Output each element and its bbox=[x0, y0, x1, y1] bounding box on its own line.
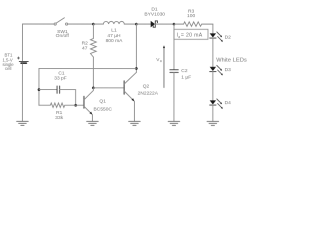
svg-text:BYV1030: BYV1030 bbox=[144, 11, 165, 17]
svg-text:D1: D1 bbox=[151, 6, 158, 12]
svg-text:C2: C2 bbox=[181, 68, 188, 74]
wire D1 cathode to node C bbox=[155, 23, 174, 25]
node B junction dot bbox=[135, 23, 138, 26]
transistor Q1 bbox=[84, 88, 93, 121]
node C junction dot bbox=[173, 23, 176, 26]
svg-text:33 pF: 33 pF bbox=[54, 76, 67, 82]
node Vx feedback junction dot bbox=[135, 67, 138, 70]
voltage arrow Va bbox=[163, 45, 165, 87]
ground battery bbox=[17, 121, 29, 125]
wire to C1 left plate bbox=[39, 89, 57, 91]
svg-text:On/off: On/off bbox=[56, 33, 70, 39]
wire R2 bottom to node X bbox=[92, 57, 94, 88]
wire switch to node A bbox=[68, 23, 94, 25]
resistor R2 (vertical) bbox=[90, 24, 96, 57]
wire D3 to D4 bbox=[212, 72, 214, 101]
svg-text:47 µH: 47 µH bbox=[107, 33, 121, 39]
svg-text:D3: D3 bbox=[225, 67, 232, 73]
ground Q2 emitter bbox=[129, 121, 141, 125]
wire R3 to LED chain (top-right corner) bbox=[212, 24, 214, 33]
inductor L1 bbox=[93, 21, 136, 24]
svg-text:1 µF: 1 µF bbox=[181, 74, 191, 80]
wire node X to Q2 base bbox=[93, 87, 124, 89]
svg-text:100: 100 bbox=[187, 13, 195, 19]
svg-text:D2: D2 bbox=[225, 35, 232, 41]
svg-text:L1: L1 bbox=[111, 28, 117, 34]
ground C2 bbox=[168, 121, 180, 125]
svg-text:White LEDs: White LEDs bbox=[216, 58, 247, 64]
junction dot C1/R1/Q1 base bbox=[74, 104, 77, 107]
svg-text:= 20 mA: = 20 mA bbox=[181, 33, 203, 39]
wire battery positive to switch (top-left corner) bbox=[22, 24, 53, 61]
node X junction dot (R2 / Q1 collector / Q2 base) bbox=[92, 87, 95, 90]
svg-text:cell: cell bbox=[5, 66, 11, 71]
wire C1 right plate down to R1 wire bbox=[60, 90, 76, 106]
node A junction dot bbox=[92, 23, 95, 26]
LED D2 bbox=[210, 32, 223, 42]
wire R1 to Q1 base bbox=[76, 104, 84, 106]
wire node C to C2 bbox=[173, 24, 175, 70]
svg-text:33k: 33k bbox=[55, 115, 63, 121]
wire D2 to D3 bbox=[212, 38, 214, 67]
wire Vx node B down to Q2 collector bbox=[135, 24, 137, 72]
svg-text:R2: R2 bbox=[82, 40, 89, 46]
svg-text:800 mA: 800 mA bbox=[106, 38, 124, 44]
svg-text:Q1: Q1 bbox=[99, 99, 106, 105]
node on left vertical for C1 bbox=[38, 88, 41, 91]
ground LED chain bbox=[207, 121, 219, 125]
resistor R1 bbox=[39, 103, 76, 107]
battery BT1 bbox=[17, 57, 28, 63]
wire battery negative to ground bbox=[21, 64, 23, 121]
svg-text:Q2: Q2 bbox=[143, 84, 150, 90]
wire C2 to ground bbox=[173, 72, 175, 121]
capacitor C1 bbox=[57, 86, 60, 93]
svg-text:BC550C: BC550C bbox=[93, 107, 112, 113]
LED D4 bbox=[210, 99, 223, 109]
capacitor C2 bbox=[170, 70, 178, 73]
switch SW1 bbox=[54, 18, 68, 25]
ground Q1 emitter bbox=[87, 121, 99, 125]
wire node B to D1 anode bbox=[136, 23, 150, 25]
LED D3 bbox=[210, 65, 223, 75]
svg-text:D4: D4 bbox=[225, 100, 232, 106]
current label box Ia = 20 mA bbox=[174, 29, 208, 39]
feedback wire Vx to left vertical bbox=[39, 68, 136, 105]
svg-text:2N2222A: 2N2222A bbox=[138, 90, 159, 96]
resistor R3 bbox=[174, 22, 213, 26]
transistor Q2 bbox=[124, 72, 136, 121]
svg-text:47: 47 bbox=[82, 46, 88, 52]
svg-text:a: a bbox=[160, 59, 162, 63]
wire D4 to ground bbox=[212, 105, 214, 121]
diode D1 (Schottky) bbox=[151, 21, 158, 27]
